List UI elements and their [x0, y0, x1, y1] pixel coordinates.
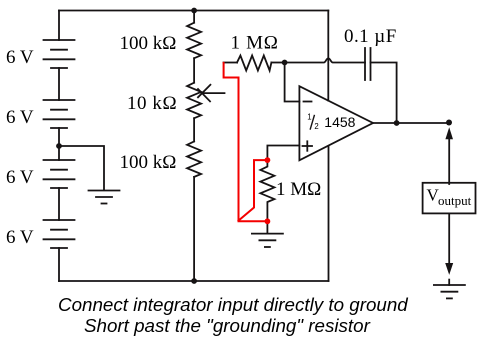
- resistor 100 kOhm upper: [187, 23, 201, 59]
- svg-text:Connect integrator input direc: Connect integrator input directly to gro…: [58, 294, 408, 315]
- node red bottom of grounding resistor: [265, 218, 271, 224]
- wire grounding resistor to ground: [266, 221, 268, 233]
- battery B3 6V: [44, 160, 75, 188]
- svg-text:1458: 1458: [324, 114, 355, 130]
- label Voutput: [427, 185, 472, 208]
- svg-text:1 MΩ: 1 MΩ: [276, 179, 321, 200]
- node divider top: [191, 8, 197, 14]
- svg-text:Short past the "grounding" res: Short past the "grounding" resistor: [84, 315, 371, 336]
- svg-text:1 MΩ: 1 MΩ: [231, 32, 279, 53]
- svg-text:100 kΩ: 100 kΩ: [120, 33, 177, 54]
- label 1/2 1458: [307, 113, 355, 132]
- wire capacitor to output: [371, 63, 397, 124]
- wire red short input to ground: [224, 63, 268, 221]
- battery B2 6V: [44, 100, 75, 128]
- wire top rail: [59, 10, 328, 12]
- node red top of grounding resistor: [265, 157, 271, 163]
- op-amp V+ pin: [327, 11, 329, 101]
- svg-text:output: output: [438, 193, 472, 208]
- svg-text:0.1 µF: 0.1 µF: [344, 26, 397, 47]
- arrowhead up at output node: [445, 127, 453, 139]
- potentiometer 10 kOhm: [187, 83, 201, 119]
- wire summing node to inverting input: [285, 63, 300, 102]
- node summing junction: [282, 60, 288, 66]
- wire output to Voutput box: [448, 139, 450, 184]
- ground battery midpoint: [89, 191, 120, 204]
- wire op-amp output: [373, 122, 449, 124]
- node battery midpoint: [56, 143, 62, 149]
- wire red short past grounding resistor: [239, 160, 268, 221]
- wire bottom rail: [59, 280, 329, 282]
- wire B1 to B2: [58, 68, 60, 100]
- ground grounding resistor: [252, 234, 283, 247]
- Voutput box: [423, 183, 476, 214]
- battery B1 6V: [44, 40, 75, 68]
- node divider bottom: [191, 278, 197, 284]
- svg-text:6 V: 6 V: [6, 167, 34, 188]
- wire midpoint to ground: [59, 146, 104, 190]
- wire pot to R3: [193, 118, 195, 141]
- battery B4 6V: [44, 220, 75, 248]
- svg-text:10 kΩ: 10 kΩ: [127, 93, 177, 114]
- wire divider top lead: [193, 11, 195, 23]
- pot wiper arrow: [198, 85, 225, 102]
- arrowhead down above ground: [445, 263, 453, 275]
- resistor 1 MOhm input: [237, 56, 271, 71]
- wire B4 to bottom rail: [58, 248, 60, 281]
- resistor 100 kOhm lower: [187, 141, 201, 177]
- op-amp plus sign: [303, 141, 313, 151]
- wire B2 to B3: [58, 128, 60, 160]
- wire feedback with hop: [285, 58, 365, 62]
- svg-text:6 V: 6 V: [6, 107, 34, 128]
- ground output: [434, 285, 465, 298]
- svg-text:6 V: 6 V: [6, 47, 34, 68]
- capacitor 0.1 uF: [365, 48, 371, 80]
- wire Voutput box to ground: [448, 213, 450, 263]
- svg-text:2: 2: [314, 122, 318, 131]
- svg-text:1: 1: [307, 113, 311, 122]
- op-amp minus sign: [304, 101, 312, 103]
- op-amp U1 triangle: [299, 86, 373, 160]
- wire B3 to B4: [58, 188, 60, 220]
- wire ground stub below arrow: [448, 280, 450, 285]
- wire input resistor left lead: [224, 62, 238, 64]
- wire noninverting input: [267, 146, 299, 161]
- svg-text:6 V: 6 V: [6, 227, 34, 248]
- svg-text:100 kΩ: 100 kΩ: [120, 152, 177, 173]
- op-amp label fraction slash: [310, 116, 314, 130]
- wire R1 to pot: [193, 58, 195, 82]
- node output measure point: [446, 120, 452, 126]
- node feedback output junction: [394, 120, 400, 126]
- wire battery top lead: [58, 11, 60, 41]
- wire input resistor to summing node: [271, 62, 284, 64]
- op-amp V- pin: [328, 146, 330, 281]
- wire R3 to bottom rail: [193, 177, 195, 281]
- resistor 1 MOhm grounding: [260, 160, 274, 221]
